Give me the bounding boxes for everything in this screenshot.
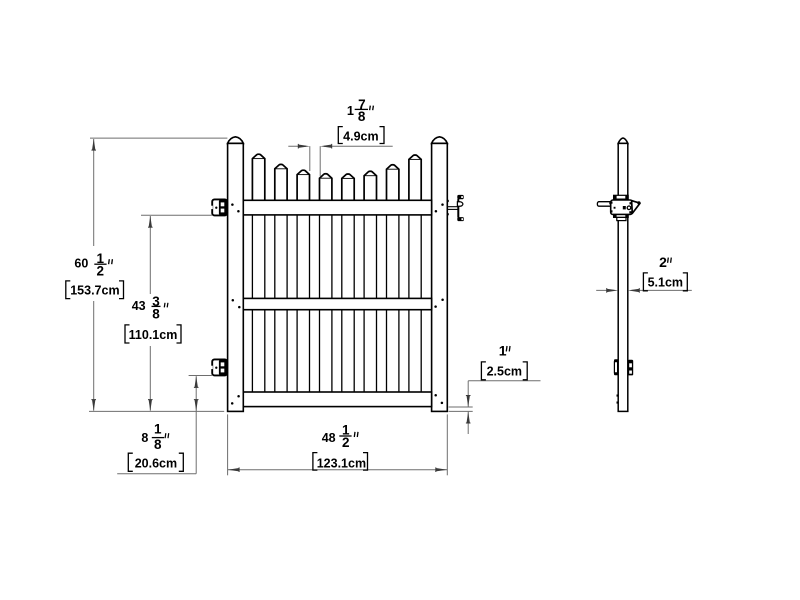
dimension 1 7/8 inch picket spacing <box>288 97 392 176</box>
hinge (side view) <box>614 359 633 375</box>
picket 3 <box>297 170 309 392</box>
svg-text:8: 8 <box>154 437 162 452</box>
svg-text:2: 2 <box>97 263 105 278</box>
picket 1 <box>252 154 264 392</box>
top hinge <box>211 199 227 215</box>
dimension 1 inch ground clearance <box>449 343 541 434</box>
svg-text:2.5cm: 2.5cm <box>487 365 522 379</box>
middle rail <box>243 298 431 309</box>
picket 4 <box>320 174 332 392</box>
svg-text:4.9cm: 4.9cm <box>343 130 378 144</box>
bottom rail <box>243 392 431 407</box>
svg-text:8: 8 <box>141 431 148 445</box>
svg-text:2: 2 <box>342 435 350 450</box>
dimension 43 3/8 inch hinge to ground <box>125 215 212 411</box>
screw nubs (side view) <box>617 395 619 404</box>
latch assembly (side view) <box>597 195 640 220</box>
svg-text:5.1cm: 5.1cm <box>648 276 683 290</box>
svg-text:20.6cm: 20.6cm <box>135 456 177 470</box>
svg-text:110.1cm: 110.1cm <box>129 328 178 342</box>
svg-text:48: 48 <box>322 431 336 445</box>
picket 8 <box>409 155 421 392</box>
svg-text:1: 1 <box>154 422 162 437</box>
picket 6 <box>364 171 376 392</box>
right gate post (front view) <box>432 137 448 412</box>
svg-text:8: 8 <box>152 307 160 322</box>
svg-text:123.1cm: 123.1cm <box>317 456 366 470</box>
picket 2 <box>275 164 287 392</box>
dimension 48 1/2 inch overall width <box>228 414 448 475</box>
picket 5 <box>342 174 354 392</box>
bottom hinge <box>211 359 227 375</box>
dimension 2 inch post width <box>596 254 692 293</box>
screw dots <box>231 203 444 404</box>
svg-text:1: 1 <box>347 104 354 118</box>
dimension 8 1/8 inch bottom hinge height <box>117 376 212 474</box>
dimension 60 1/2 inch overall height <box>66 138 228 411</box>
side view post <box>618 138 628 411</box>
svg-text:43: 43 <box>132 299 146 313</box>
gate latch (front view) <box>447 195 464 221</box>
svg-text:8: 8 <box>358 109 366 124</box>
svg-text:60: 60 <box>74 257 88 271</box>
top rail <box>243 200 431 215</box>
svg-text:1: 1 <box>499 343 507 359</box>
svg-text:153.7cm: 153.7cm <box>70 284 119 298</box>
svg-text:2: 2 <box>659 254 667 270</box>
picket 7 <box>387 165 399 392</box>
left gate post (front view) <box>228 137 244 412</box>
